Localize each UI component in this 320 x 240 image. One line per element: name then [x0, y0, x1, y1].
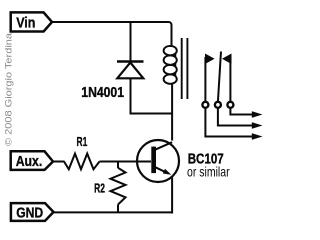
svg-text:© 2008 Giorgio Terdina: © 2008 Giorgio Terdina — [4, 33, 14, 146]
diode D1 triangle — [117, 63, 143, 79]
arrowhead out 3 — [252, 133, 263, 140]
relay contact left post — [204, 57, 206, 102]
wire Aux to R1 — [53, 161, 65, 163]
resistor R1 — [64, 154, 100, 170]
relay contact right post — [229, 57, 231, 102]
transistor Q1 emitter line — [155, 167, 168, 173]
wire emitter down — [171, 178, 173, 214]
wire contact 3 out — [230, 108, 252, 115]
wire coil bottom stub / collector vertical — [171, 84, 173, 141]
resistor R2 — [111, 168, 126, 205]
transistor Q1 collector line — [154, 142, 172, 150]
resistor R2 bottom stub — [117, 205, 119, 213]
diode D1 cathode bar — [117, 60, 144, 62]
transistor Q1 emitter arrowhead — [163, 169, 172, 175]
svg-text:Vin: Vin — [16, 14, 35, 31]
relay terminal circle 3 — [227, 102, 233, 108]
wire contact 1 out — [205, 108, 252, 137]
arrowhead out 1 — [252, 111, 263, 118]
svg-text:GND: GND — [16, 205, 43, 222]
relay contact right flag — [222, 54, 232, 65]
relay core lines — [181, 38, 183, 99]
svg-text:R1: R1 — [77, 134, 88, 149]
arrowhead out 2 — [252, 122, 263, 129]
transistor Q1 base bar — [151, 147, 156, 174]
wire Vin rail — [52, 22, 172, 47]
relay contact left flag — [205, 54, 215, 65]
svg-text:Aux.: Aux. — [16, 153, 43, 170]
svg-text:R2: R2 — [94, 180, 105, 195]
relay contact middle blade — [218, 52, 221, 102]
wire GND rail — [54, 211, 174, 213]
port Aux — [11, 151, 53, 170]
port Vin — [11, 12, 52, 31]
wire diode branch drop — [130, 21, 132, 61]
wire contact 2 out — [218, 108, 252, 126]
wire diode anode down — [130, 78, 132, 113]
wire R1 to base — [100, 161, 152, 163]
svg-text:1N4001: 1N4001 — [81, 85, 124, 101]
resistor R2 top stub — [117, 162, 119, 169]
relay terminal circle 1 — [202, 102, 208, 108]
wire diode to collector node — [130, 113, 173, 115]
svg-text:or similar: or similar — [187, 163, 230, 179]
transistor Q1 circle — [137, 140, 179, 182]
relay terminal circle 2 — [215, 102, 221, 108]
port GND — [11, 203, 54, 221]
relay coil K1 loops — [164, 46, 177, 84]
